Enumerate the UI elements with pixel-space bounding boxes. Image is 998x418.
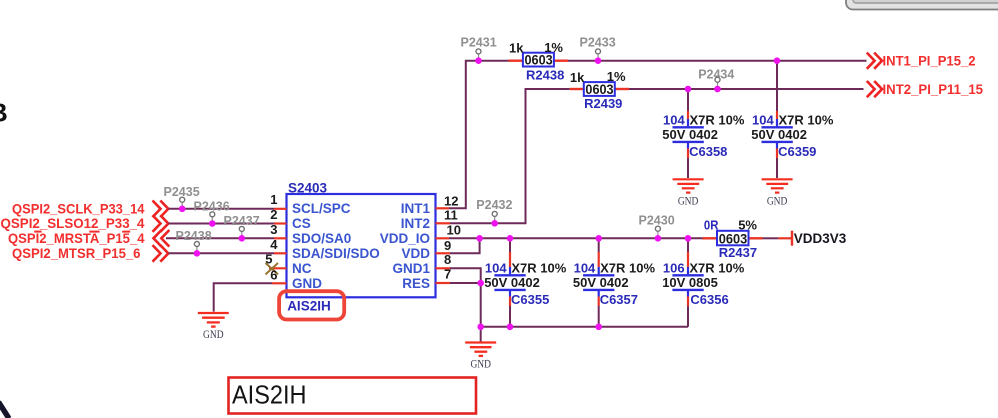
svg-text:R2438: R2438 [526, 67, 564, 82]
svg-text:C6357: C6357 [600, 292, 638, 307]
svg-text:C6358: C6358 [689, 144, 727, 159]
svg-text:GND: GND [767, 195, 788, 207]
pin 12 INT1 [401, 194, 459, 216]
port chevron QSPI2_MTSR [153, 245, 169, 262]
svg-text:X7R 10%: X7R 10% [779, 112, 834, 127]
capacitor C6358 [662, 89, 745, 178]
part label box AIS2IH [279, 291, 344, 319]
ground GND (IC) [198, 313, 229, 341]
svg-text:X7R 10%: X7R 10% [689, 260, 744, 275]
svg-text:50V 0402: 50V 0402 [662, 127, 718, 142]
pin 6 GND [270, 267, 322, 291]
svg-text:X7R 10%: X7R 10% [690, 112, 745, 127]
wire row3 SDO [166, 237, 274, 239]
ground GND (rail) [465, 327, 496, 371]
pin 8 GND1 [392, 252, 451, 276]
svg-text:S2403: S2403 [288, 180, 328, 195]
wire INT2 riser [450, 89, 570, 223]
wire row1 SCL [169, 208, 275, 210]
svg-text:GND: GND [292, 276, 322, 291]
svg-text:SDA/SDI/SDO: SDA/SDI/SDO [292, 246, 380, 261]
svg-text:VDD_IO: VDD_IO [380, 231, 430, 246]
svg-text:104: 104 [752, 112, 774, 127]
wire row4 SDA [169, 252, 275, 254]
svg-text:C6355: C6355 [511, 292, 549, 307]
wire GND1/RES riser [450, 268, 481, 327]
svg-text:P2432: P2432 [476, 198, 512, 212]
svg-text:104: 104 [574, 260, 596, 275]
wire VDD pin9 riser [450, 238, 480, 253]
wire VDD bus [449, 237, 703, 239]
svg-text:QSPI2_SCLK_P33_14: QSPI2_SCLK_P33_14 [12, 200, 145, 216]
op IC U S2403 body [287, 180, 436, 297]
svg-text:GND: GND [678, 195, 699, 207]
svg-text:VDD3V3: VDD3V3 [794, 231, 847, 246]
svg-text:P2433: P2433 [580, 35, 616, 49]
svg-text:R2439: R2439 [584, 96, 622, 111]
svg-text:12: 12 [444, 194, 458, 209]
wire INT1 riser [449, 61, 509, 209]
net QSPI2_SCLK_P33_14 [12, 200, 145, 216]
corner glyph bottom-left [0, 402, 9, 418]
svg-text:50V 0402: 50V 0402 [573, 275, 629, 290]
testpoint P2435 [164, 185, 200, 212]
capacitor C6357 [573, 238, 656, 326]
svg-text:GND: GND [203, 329, 224, 341]
svg-text:104: 104 [663, 112, 685, 127]
svg-text:106: 106 [663, 260, 685, 275]
svg-text:CS: CS [292, 216, 311, 231]
capacitor C6359 [751, 61, 834, 178]
pin 10 VDD_IO [380, 223, 461, 246]
svg-text:C6356: C6356 [690, 292, 728, 307]
pin 4 SDA/SDI/SDO [270, 237, 380, 261]
svg-text:INT1_PI_P15_2: INT1_PI_P15_2 [883, 54, 976, 69]
svg-text:9: 9 [444, 238, 451, 253]
pin 3 SDO/SA0 [270, 222, 351, 246]
svg-text:X7R 10%: X7R 10% [511, 260, 566, 275]
port chevron QSPI2_SLSO12 [153, 215, 169, 232]
port chevron QSPI2_MRSTA (input) [154, 230, 170, 247]
pin 9 VDD [401, 238, 451, 261]
pin 2 CS [270, 207, 311, 231]
testpoint P2438 [176, 229, 212, 257]
svg-text:P2430: P2430 [639, 214, 675, 228]
svg-text:1: 1 [270, 192, 277, 207]
svg-text:50V 0402: 50V 0402 [484, 275, 540, 290]
wire pin6 to ground [214, 283, 272, 311]
svg-text:P2438: P2438 [176, 229, 212, 243]
svg-text:6: 6 [270, 267, 277, 282]
svg-text:GND1: GND1 [392, 261, 430, 276]
zone letter B [0, 98, 8, 128]
wire INT2 horizontal [629, 88, 864, 90]
power symbol VDD3V3 [792, 231, 847, 247]
svg-text:0R: 0R [704, 218, 719, 233]
no-connect X on pin 5 [266, 263, 279, 274]
wire row2 CS [169, 223, 275, 225]
svg-text:AIS2IH: AIS2IH [232, 380, 307, 410]
pin 11 INT2 [401, 208, 458, 231]
port chevron INT2 [867, 81, 882, 97]
svg-text:INT2_PI_P11_15: INT2_PI_P11_15 [883, 82, 984, 97]
svg-text:10V 0805: 10V 0805 [662, 275, 718, 290]
svg-text:INT1: INT1 [401, 201, 431, 216]
title box AIS2IH [229, 378, 477, 414]
port chevron INT1 [867, 53, 882, 69]
svg-text:QSPI2_MTSR_P15_6: QSPI2_MTSR_P15_6 [12, 245, 141, 261]
port chevron QSPI2_SCLK [153, 201, 169, 218]
net INT2_PI_P11_15 [883, 82, 984, 97]
capacitor C6355 [484, 238, 567, 326]
svg-text:NC: NC [292, 261, 312, 276]
svg-text:P2431: P2431 [461, 35, 497, 49]
window fragment top-right [846, 0, 998, 10]
testpoint P2433 [580, 35, 616, 64]
net QSPI2_SLSO12_P33_4 [1, 215, 145, 231]
junction dots VDD bus and rail [476, 235, 691, 330]
testpoint P2432 [476, 198, 512, 227]
svg-text:2: 2 [270, 207, 277, 222]
wire RES join [450, 282, 481, 284]
junction dots INT lines [685, 57, 781, 92]
net QSPI2_MTSR_P15_6 [12, 245, 141, 261]
svg-text:4: 4 [270, 237, 278, 252]
resistor R2437 [703, 218, 763, 260]
svg-text:11: 11 [444, 208, 458, 223]
wire INT1 horizontal [568, 60, 867, 62]
svg-text:AIS2IH: AIS2IH [287, 299, 331, 314]
svg-text:0603: 0603 [585, 81, 613, 97]
svg-text:INT2: INT2 [401, 216, 430, 231]
svg-text:50V 0402: 50V 0402 [751, 127, 807, 142]
testpoint P2431 [461, 35, 497, 64]
pin 7 RES [402, 266, 451, 291]
svg-text:GND: GND [470, 358, 491, 370]
testpoint P2436 [194, 199, 230, 226]
pin 5 NC [265, 252, 311, 277]
svg-text:0603: 0603 [525, 52, 553, 68]
svg-text:104: 104 [485, 260, 507, 275]
wire to VDD3V3 [763, 237, 792, 239]
svg-text:SDO/SA0: SDO/SA0 [292, 231, 351, 246]
testpoint P2430 [639, 214, 675, 242]
ground GND (C6359) [762, 179, 793, 207]
net QSPI2_MRSTA_P15_4 [8, 230, 145, 246]
resistor R2439 [570, 69, 629, 111]
svg-text:1k: 1k [509, 41, 524, 56]
svg-text:SCL/SPC: SCL/SPC [292, 201, 351, 216]
pin 1 SCL/SPC [270, 192, 350, 216]
svg-text:VDD: VDD [401, 246, 430, 261]
svg-text:1k: 1k [570, 70, 585, 85]
testpoint P2434 [698, 67, 734, 92]
svg-text:B: B [0, 98, 8, 128]
wire ground rail [481, 326, 688, 328]
ground GND (C6358) [673, 179, 704, 207]
svg-text:X7R 10%: X7R 10% [600, 260, 655, 275]
resistor R2438 [509, 40, 569, 82]
svg-text:10: 10 [447, 223, 461, 238]
net INT1_PI_P15_2 [883, 54, 976, 69]
svg-text:R2437: R2437 [719, 245, 757, 260]
capacitor C6356 [662, 238, 745, 326]
svg-text:RES: RES [402, 276, 430, 291]
svg-text:C6359: C6359 [778, 144, 816, 159]
svg-text:QSPI2_SLSO12_P33_4: QSPI2_SLSO12_P33_4 [1, 215, 145, 231]
svg-text:3: 3 [270, 222, 277, 237]
testpoint P2437 [224, 214, 260, 242]
